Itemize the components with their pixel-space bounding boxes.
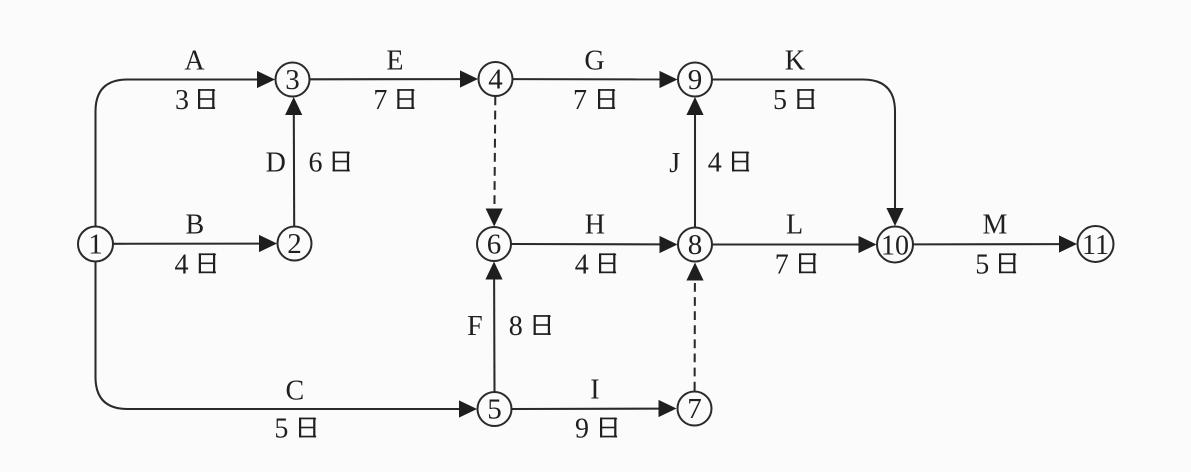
svg-text:J: J xyxy=(669,148,680,179)
svg-text:2: 2 xyxy=(287,228,302,260)
arrowhead into node 3 xyxy=(257,71,275,88)
arrowhead into node 8 xyxy=(686,263,703,281)
node 11 xyxy=(1078,226,1114,262)
wire 1 to 5 (activity C path) xyxy=(96,262,464,409)
svg-text:I: I xyxy=(590,375,599,406)
wire 8 to 9 (activity J) xyxy=(694,111,696,227)
svg-text:6: 6 xyxy=(309,148,323,179)
arrowhead into node 7 xyxy=(659,400,677,417)
node 7 xyxy=(678,392,712,426)
svg-text:H: H xyxy=(585,209,605,240)
svg-text:1: 1 xyxy=(88,228,103,260)
svg-text:4: 4 xyxy=(708,148,722,179)
wire 1 to 3 (activity A path) xyxy=(96,80,262,227)
arrowhead into node 9 xyxy=(660,71,678,88)
wire 3 to 4 (activity E) xyxy=(310,78,464,80)
svg-text:7: 7 xyxy=(775,249,789,280)
node 8 xyxy=(678,228,712,262)
node 6 xyxy=(477,227,511,261)
dummy wire 4 to 6 (dashed) xyxy=(493,97,496,212)
arrowhead into node 6 xyxy=(486,209,503,227)
svg-text:4: 4 xyxy=(175,249,189,280)
svg-text:10: 10 xyxy=(881,230,909,261)
svg-text:5: 5 xyxy=(975,249,989,280)
arrowhead into node 10 xyxy=(886,208,903,226)
svg-text:C: C xyxy=(285,375,304,406)
wire 5 to 7 (activity I) xyxy=(512,408,663,410)
wire 1 to 2 (activity B) xyxy=(114,243,264,245)
node 1 xyxy=(78,227,113,262)
arrowhead into node 11 xyxy=(1059,235,1077,252)
svg-text:9: 9 xyxy=(575,414,589,445)
arrowhead into node 10 xyxy=(859,236,877,253)
svg-text:3: 3 xyxy=(285,64,300,96)
arrowhead into node 5 xyxy=(459,400,477,417)
node 9 xyxy=(678,63,712,97)
arrowhead into node 2 xyxy=(259,235,277,252)
node 2 xyxy=(278,227,312,261)
node 5 xyxy=(478,392,512,426)
svg-text:9: 9 xyxy=(688,64,703,96)
svg-text:11: 11 xyxy=(1082,230,1109,261)
node 4 xyxy=(479,62,513,96)
svg-text:K: K xyxy=(785,46,805,77)
arrowhead into node 6 xyxy=(485,262,502,280)
wire 10 to 11 (activity M) xyxy=(914,243,1064,245)
svg-text:G: G xyxy=(584,46,604,77)
wire 9 to 10 (activity K path) xyxy=(713,80,896,213)
svg-text:5: 5 xyxy=(274,414,288,445)
dummy wire 7 to 8 (dashed) xyxy=(694,279,696,391)
svg-text:L: L xyxy=(786,209,803,240)
wire 5 to 6 (activity F) xyxy=(493,276,495,392)
svg-text:7: 7 xyxy=(687,393,702,425)
svg-text:4: 4 xyxy=(488,63,503,95)
wire 4 to 9 (activity G) xyxy=(513,78,663,80)
svg-text:3: 3 xyxy=(175,85,189,116)
arrowhead into node 3 xyxy=(285,97,302,115)
node 3 xyxy=(276,63,310,97)
node 10 xyxy=(877,227,913,263)
wire 2 to 3 (activity D) xyxy=(293,111,295,226)
svg-text:5: 5 xyxy=(773,85,787,116)
svg-text:D: D xyxy=(266,148,286,179)
svg-text:F: F xyxy=(467,311,483,342)
svg-text:M: M xyxy=(982,209,1007,240)
svg-text:B: B xyxy=(186,209,205,240)
svg-text:7: 7 xyxy=(573,85,587,116)
arrowhead into node 4 xyxy=(460,70,478,87)
svg-text:A: A xyxy=(184,46,205,77)
svg-text:E: E xyxy=(386,46,403,77)
svg-text:4: 4 xyxy=(575,249,589,280)
svg-text:5: 5 xyxy=(487,393,502,425)
svg-text:7: 7 xyxy=(373,85,387,116)
svg-text:8: 8 xyxy=(509,311,523,342)
wire 6 to 8 (activity H) xyxy=(512,243,664,245)
svg-text:8: 8 xyxy=(688,229,703,261)
arrowhead into node 9 xyxy=(686,97,703,115)
svg-text:6: 6 xyxy=(487,228,502,260)
arrowhead into node 8 xyxy=(660,236,678,253)
wire 8 to 10 (activity L) xyxy=(713,243,863,245)
